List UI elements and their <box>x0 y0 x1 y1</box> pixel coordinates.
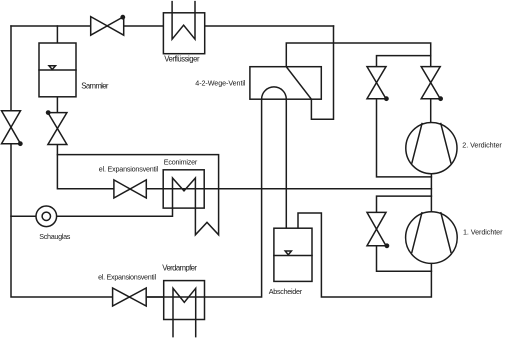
compressor 2 circle <box>406 123 457 174</box>
receiver liquid level line <box>39 69 76 71</box>
dot compressor 1 valve <box>385 243 390 248</box>
compressor 1 vanes <box>412 213 451 253</box>
dot left riser valve <box>18 141 23 146</box>
wire: receiver feed stem from top line <box>56 26 58 43</box>
wire: compressor 1 bottom loop to separator top <box>298 213 431 297</box>
junction dots on valves <box>18 15 443 248</box>
valve: 2nd stage left discharge valve (vertical) <box>367 67 386 99</box>
wire: receiver drain stem to valve <box>56 97 58 113</box>
separator level line <box>274 255 312 257</box>
svg-text:Econimizer: Econimizer <box>164 157 198 166</box>
receiver level mark <box>49 66 56 70</box>
evaporator (Verdampfer) box <box>164 281 205 320</box>
compressor 1 circle <box>406 212 458 264</box>
condenser box <box>163 13 204 54</box>
svg-text:Sammler: Sammler <box>81 81 109 90</box>
wire: left riser x=11 down to evaporator feed row <box>11 26 164 297</box>
evaporator coil M <box>173 288 196 336</box>
svg-text:2. Verdichter: 2. Verdichter <box>462 141 502 150</box>
svg-text:Schauglas: Schauglas <box>39 232 71 241</box>
wire: economizer main liquid line y=188.7 <box>57 145 431 189</box>
valve: left riser shut-off (vertical) <box>2 111 21 144</box>
valve: 2nd stage right discharge valve (vertical) <box>421 67 440 99</box>
valve: el. Expansionsventil economizer row (horizontal) <box>114 180 146 198</box>
receiver (Sammler) box <box>39 43 76 97</box>
4-2-way valve box <box>250 67 321 100</box>
wire: 2nd stage left valve top stem and tie line y=55.6 <box>377 56 431 67</box>
wire: 2nd stage left valve bottom stem down to compressor bottom line <box>377 99 432 177</box>
dot receiver valve <box>46 110 51 115</box>
wire: condenser outlet down-leg into 4-2-way valve right port <box>311 26 333 119</box>
wire: evaporator row from expansion valve through box <box>146 296 204 298</box>
wire: compressor 1 valve bottom stem and line y=271.2 <box>377 246 432 271</box>
svg-text:4-2-Wege-Ventil: 4-2-Wege-Ventil <box>195 79 246 88</box>
wire: 4-2-way valve left arc port down and left to evaporator outlet <box>205 99 262 297</box>
compressor 2 vanes <box>412 124 451 163</box>
economizer box <box>163 170 204 208</box>
svg-text:Abscheider: Abscheider <box>269 287 303 296</box>
4-2-way valve diagonal <box>286 67 311 100</box>
svg-text:1. Verdichter: 1. Verdichter <box>463 228 503 237</box>
dot top-left valve <box>120 15 125 20</box>
dot 2nd stage right valve <box>438 96 443 101</box>
dot 2nd stage left valve <box>384 96 389 101</box>
valve: receiver drain shut-off (vertical) <box>48 113 67 145</box>
svg-text:el. Expansionsventil: el. Expansionsventil <box>99 165 159 174</box>
wire: economizer injection branch y=154.6 with drop to coil pennant <box>11 155 219 235</box>
wire: 4-2-way valve to separator feed line <box>285 99 287 228</box>
separator level mark <box>285 251 291 255</box>
svg-text:Verflüssiger: Verflüssiger <box>164 55 200 64</box>
svg-text:el. Expansionsventil: el. Expansionsventil <box>98 273 156 282</box>
separator (Abscheider) box <box>274 228 312 281</box>
condenser coil W <box>172 2 195 40</box>
wire: 4-2-way valve top port up and right to 2nd stage discharge valves <box>286 43 430 67</box>
sight glass (Schauglas) <box>36 206 57 227</box>
valve: el. Expansionsventil evaporator row (horizontal) <box>113 288 147 306</box>
wire: vertical between compressor 2 bottom and compressor 1 top <box>430 174 432 212</box>
wire: 2nd stage right valve bottom stem to compressor 2 top <box>430 99 432 123</box>
wire: top line from left riser to condenser and on to 4-2-way valve return <box>11 25 334 27</box>
valve: discharge shut-off top-left (horizontal) <box>91 17 124 36</box>
4-2-way valve arc <box>262 87 287 99</box>
wire: compressor 1 suction valve top stem and line y=196.1 <box>377 196 432 212</box>
valve: compressor 1 suction valve (vertical) <box>367 212 386 245</box>
svg-text:Verdampfer: Verdampfer <box>162 263 197 272</box>
